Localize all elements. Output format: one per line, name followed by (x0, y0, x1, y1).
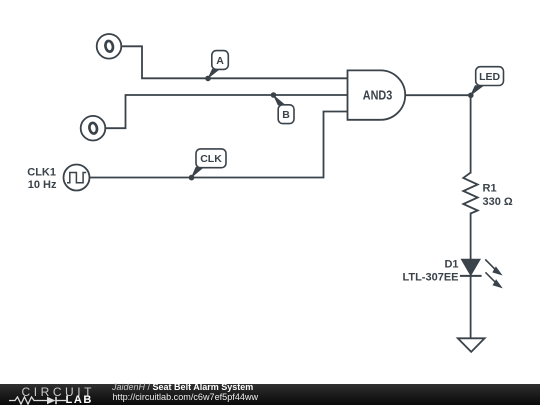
wire junction at node LED (468, 93, 474, 99)
footer title line (112, 382, 253, 392)
node CLK flag (191, 149, 226, 179)
svg-text:330 Ω: 330 Ω (483, 196, 513, 208)
svg-text:CLK: CLK (200, 153, 222, 165)
svg-text:R1: R1 (483, 183, 497, 195)
svg-text:10 Hz: 10 Hz (28, 179, 57, 191)
svg-text:D1: D1 (444, 258, 458, 270)
wire diode D1 to ground (470, 276, 472, 338)
wire AND3 output to junction (406, 94, 471, 96)
node A flag (207, 51, 228, 80)
node B flag (273, 94, 294, 123)
svg-text:AND3: AND3 (363, 88, 393, 103)
logic source V2 value 0 (81, 116, 106, 141)
footer url line (113, 392, 259, 402)
ground (458, 338, 485, 352)
CircuitLab logo LAB text (66, 394, 93, 405)
wire junction at node B (271, 92, 277, 98)
svg-text:A: A (216, 55, 224, 67)
wire junction at node CLK (189, 175, 195, 181)
wire junction at node A (205, 76, 211, 82)
svg-text:CLK1: CLK1 (27, 166, 56, 178)
resistor R1 330 ohm (463, 173, 513, 214)
wire from source V2 to gate input B (105, 95, 347, 128)
CircuitLab logo text (22, 385, 96, 399)
wire resistor R1 to diode D1 (470, 214, 472, 260)
logic source V1 value 0 (97, 34, 122, 59)
diode D1 LTL-307EE (LED) (402, 258, 502, 288)
wire from clock CLK1 to gate input 3 (90, 112, 348, 178)
AND gate AND3 (348, 70, 406, 119)
node LED flag (470, 67, 504, 96)
footer bar (0, 384, 540, 405)
wire from source V1 to gate input A (122, 46, 348, 78)
CircuitLab logo schematic squiggle (8, 396, 66, 405)
clock source CLK1 10 Hz (64, 165, 90, 191)
svg-text:LTL-307EE: LTL-307EE (402, 271, 458, 283)
wire junction down to resistor R1 (470, 95, 472, 172)
svg-text:B: B (282, 109, 290, 121)
svg-text:LED: LED (479, 71, 500, 83)
